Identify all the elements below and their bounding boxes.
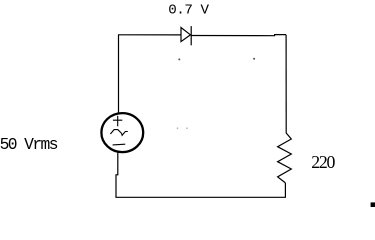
plus sign inside source	[113, 116, 122, 127]
diode D1 anode triangle	[181, 28, 190, 42]
black square mark bottom-right	[371, 202, 375, 207]
artifact dot left of diode region	[178, 58, 180, 60]
wire bottom segment	[115, 196, 286, 198]
resistor R1 zigzag	[278, 133, 292, 183]
artifact dots near source	[177, 127, 179, 129]
AC source V1 circle	[101, 113, 143, 152]
svg-text:220: 220	[311, 152, 335, 172]
diode D1 cathode bar	[190, 26, 192, 45]
wire left lower vertical with jog	[116, 153, 118, 198]
artifact dot right of diode region	[253, 58, 255, 60]
sine symbol inside source	[110, 130, 127, 136]
minus sign inside source	[113, 143, 126, 146]
wire right vertical lower	[284, 183, 286, 197]
wire top-left segment	[118, 34, 181, 36]
svg-text:50 Vrms: 50 Vrms	[0, 135, 58, 154]
wire left upper vertical	[118, 35, 120, 113]
wire top-right segment with jog	[191, 35, 286, 36]
wire right vertical upper	[285, 35, 287, 134]
svg-text:0.7 V: 0.7 V	[168, 3, 209, 19]
